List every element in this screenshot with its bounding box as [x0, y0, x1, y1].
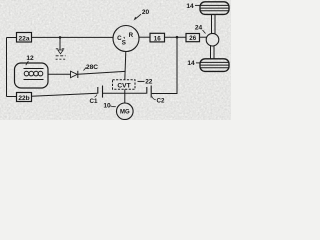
- svg-text:22: 22: [145, 79, 153, 86]
- wire bottom-left corner to inverter 22b: [7, 96, 17, 98]
- svg-text:16: 16: [154, 35, 161, 42]
- label 12 with leader: [26, 55, 34, 65]
- label 22 with tick: [138, 79, 153, 86]
- wire left vertical bus: [6, 38, 8, 97]
- box 16: [150, 33, 165, 42]
- inverter 22b: [17, 93, 32, 103]
- svg-text:26: 26: [189, 35, 196, 42]
- planetary gear unit 20: [113, 26, 139, 52]
- diode 28a: [71, 71, 78, 78]
- CVT 22: [113, 80, 136, 90]
- battery 12: [15, 63, 49, 88]
- svg-text:12: 12: [26, 55, 34, 62]
- wire top-left to inverter: [7, 37, 17, 39]
- svg-text:14: 14: [187, 60, 195, 67]
- label 10 with leader: [103, 102, 115, 109]
- wire C1 to shaft junction to C2: [103, 92, 147, 94]
- wire diode to center shaft: [78, 71, 125, 74]
- label C1 with leader: [90, 95, 98, 106]
- label 14 top: [186, 3, 199, 10]
- paper noise: [0, 0, 231, 120]
- svg-text:C2: C2: [157, 98, 165, 105]
- shaft CVT to MG: [124, 89, 126, 103]
- wire junction down to diode: [59, 37, 61, 50]
- wire box 26 to differential: [200, 36, 208, 38]
- axle lower: [211, 45, 215, 58]
- svg-text:14: 14: [186, 3, 194, 10]
- shaft planetary to CVT: [125, 52, 126, 80]
- wire bottom bus to clutch C1: [32, 93, 98, 96]
- motor generator MG 10: [117, 103, 134, 120]
- inverter 22a: [17, 33, 32, 43]
- label C2 with leader: [152, 97, 165, 105]
- svg-text:10: 10: [103, 102, 111, 109]
- wire top bus to planetary: [32, 36, 114, 38]
- svg-text:28C: 28C: [86, 64, 98, 71]
- node junction on top bus: [59, 36, 62, 39]
- svg-text:22a: 22a: [18, 35, 29, 42]
- label 20 with arrow: [134, 9, 150, 21]
- wire C2 to right vertical up to top bus: [152, 37, 177, 93]
- clutch C1: [98, 86, 103, 98]
- svg-text:MG: MG: [120, 110, 130, 116]
- wheel 14 bottom: [200, 59, 229, 72]
- wire box 16 to box 26: [165, 36, 187, 38]
- svg-text:22b: 22b: [18, 95, 29, 102]
- axle upper: [212, 14, 216, 34]
- clutch C2: [147, 86, 151, 98]
- svg-text:S: S: [122, 40, 126, 47]
- svg-text:24: 24: [195, 25, 203, 32]
- label 24 with leader: [195, 25, 206, 34]
- node junction right vertical / top bus: [176, 36, 179, 39]
- wire battery to diode 28a: [48, 73, 71, 75]
- svg-text:20: 20: [142, 9, 150, 16]
- svg-text:CVT: CVT: [117, 82, 130, 89]
- wheel 14 top: [200, 2, 229, 15]
- differential 24: [206, 33, 219, 46]
- svg-text:R: R: [129, 32, 134, 39]
- wire planetary to box 16: [139, 36, 150, 38]
- diode (down) with dashed plates: [56, 49, 66, 59]
- box 26: [186, 34, 200, 43]
- svg-text:C1: C1: [90, 98, 98, 105]
- label 28a with leader: [84, 64, 99, 71]
- label 14 bottom: [187, 60, 200, 67]
